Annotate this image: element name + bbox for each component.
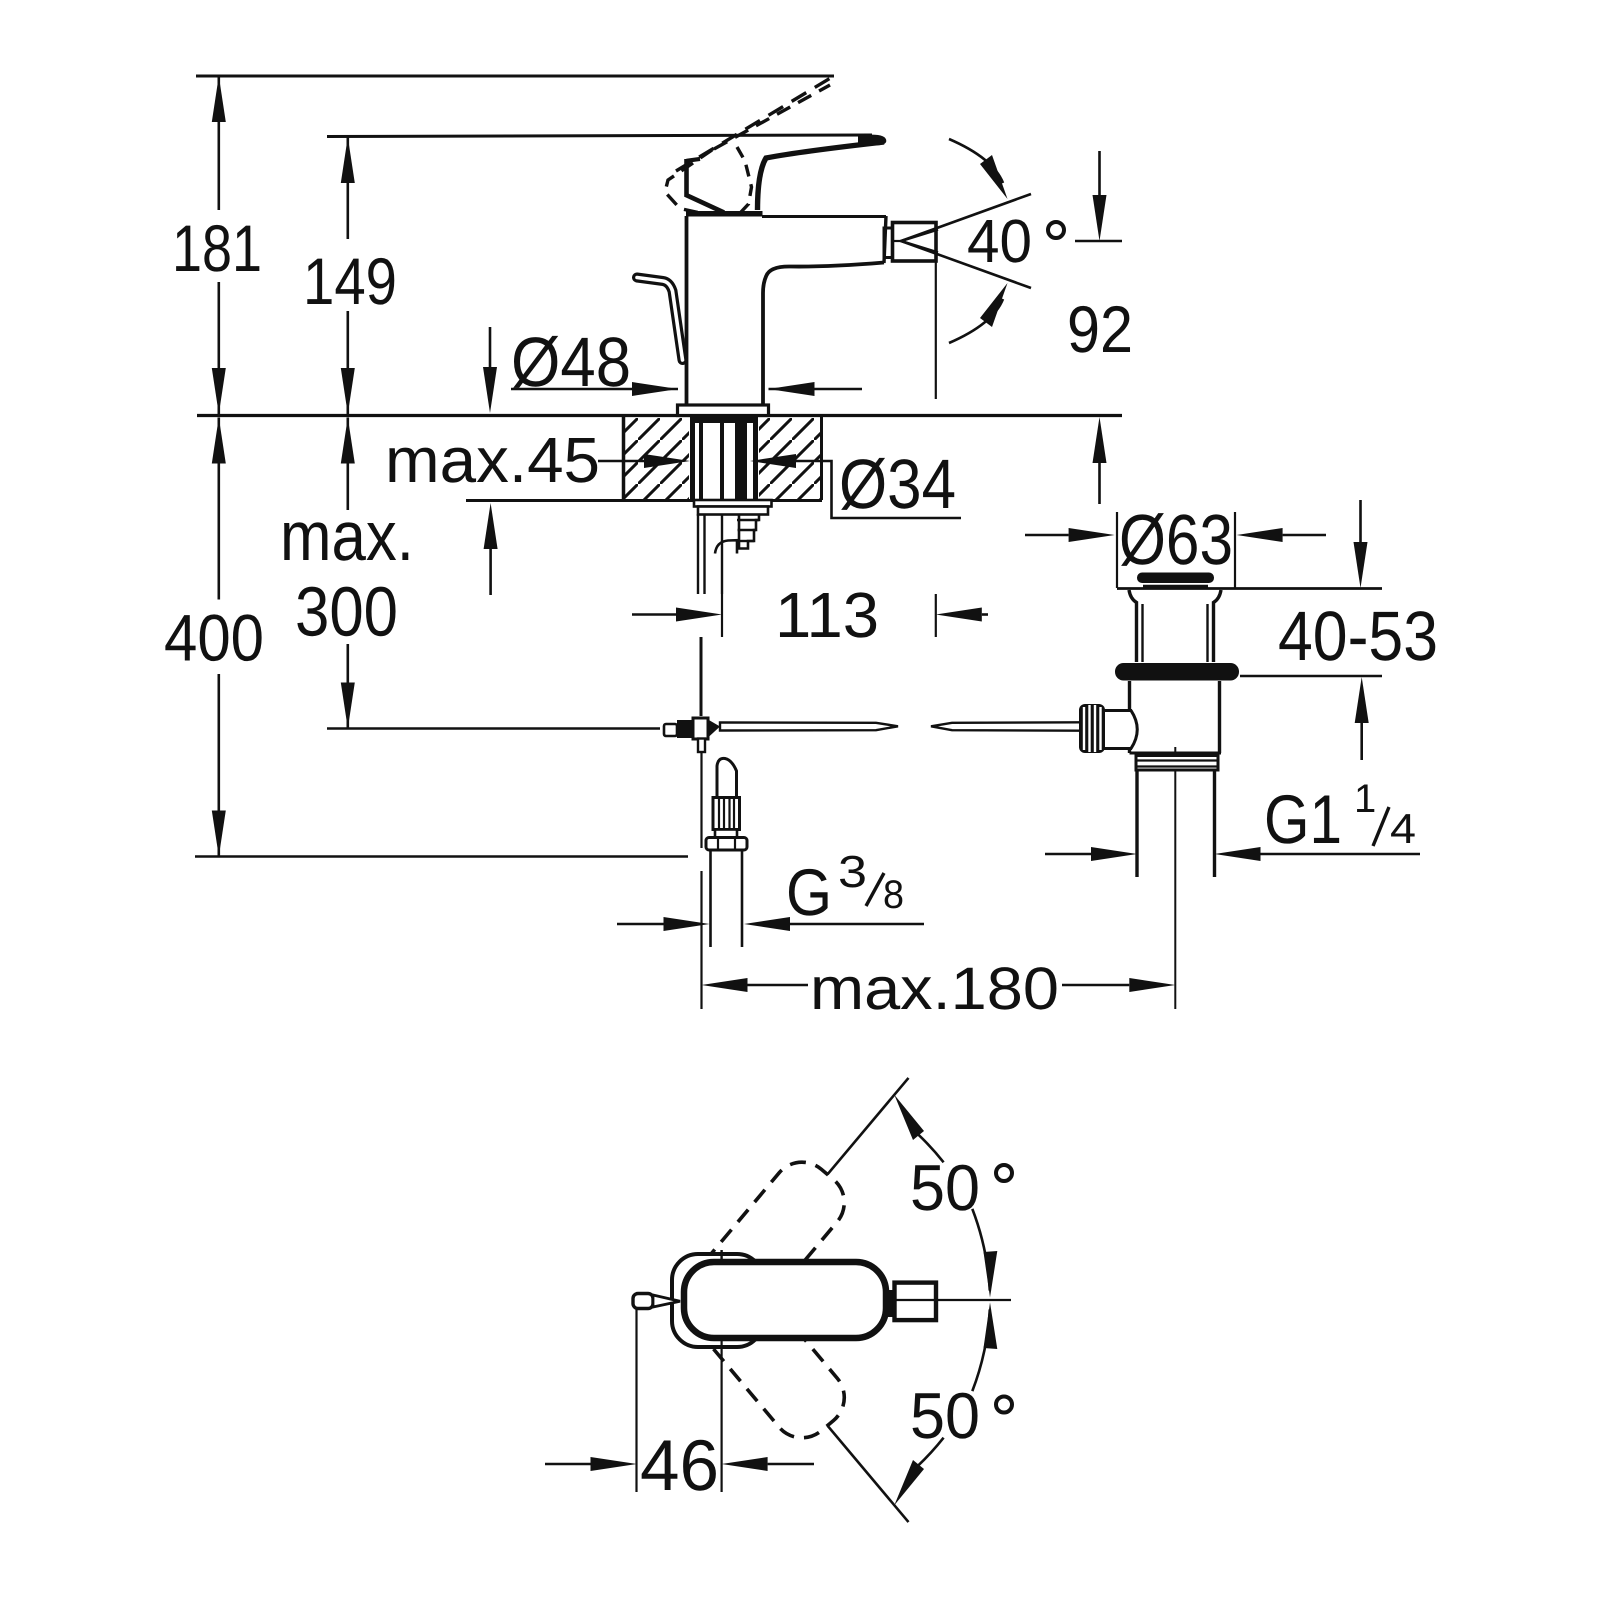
drain locking ring [1136, 756, 1218, 771]
dim 181 line [218, 76, 221, 210]
handle swing diagonal lower [722, 1300, 909, 1522]
countertop hatch right of hole [759, 418, 822, 499]
angle 40 degrees lower line [901, 241, 1031, 288]
spout underside [763, 263, 884, 406]
svg-text:max.45: max.45 [385, 424, 600, 496]
escutcheon (top view) [672, 1254, 763, 1347]
pop-up rod (above counter) [637, 278, 683, 361]
pop-up linkage clamp [664, 724, 677, 736]
dim 149 arrow up [341, 137, 355, 183]
angle 50 upper arc segments [918, 1134, 944, 1163]
thin rod to G3/8 connector [700, 752, 702, 848]
dim 40-53 bottom reference line [1240, 675, 1382, 678]
drain pop-up plug cap [1137, 573, 1214, 584]
svg-text:3: 3 [838, 846, 867, 897]
pop-up horizontal lever right segment [931, 722, 1080, 730]
dim max.300 arrow up [341, 418, 355, 464]
dim G1 1/4 left arrow [1045, 853, 1091, 856]
dim G1 1/4 right arrow [1261, 853, 1421, 856]
hole dim arrow left (max.45 pointer) [598, 460, 644, 463]
faucet dashed handle pivot outline right [737, 147, 752, 212]
angle 50 upper inner arrowhead [984, 1251, 998, 1298]
svg-text:400: 400 [164, 601, 264, 675]
second reference line (handle height 149) [327, 135, 872, 137]
dim 46 right arrow [768, 1463, 814, 1466]
dim 149 arrow down [341, 368, 355, 414]
dim 40-53 top arrow [1359, 500, 1362, 542]
svg-text:181: 181 [172, 211, 262, 285]
dim 46 right extension [720, 1339, 722, 1492]
G3/8 hose end fitting [717, 758, 737, 797]
dim 400 arrow up [212, 418, 226, 464]
lever handle (top view) [684, 1262, 886, 1338]
svg-text:300: 300 [295, 573, 398, 651]
pop-up rod (top view) [633, 1294, 653, 1309]
dim 40-53 bottom arrow [1360, 723, 1363, 760]
angle 50 lower arc segments [972, 1309, 990, 1391]
faucet dashed handle upper edge (raised position) [676, 77, 833, 172]
dim max.300 arrow down [341, 683, 355, 729]
dim 92 top arrow [1098, 151, 1101, 195]
drain flange top line with 40-53 reference [1117, 587, 1382, 590]
countertop slab bottom line [466, 499, 822, 502]
dim 113 left extension line [721, 594, 723, 637]
svg-text:G: G [786, 855, 832, 929]
svg-text:4: 4 [1390, 805, 1416, 852]
base flange [678, 405, 769, 416]
svg-text:1: 1 [1354, 777, 1376, 821]
drain rubber gasket [1115, 663, 1239, 681]
dim 149 line [346, 137, 349, 239]
cartridge cap band [686, 211, 763, 217]
dim Ø34 arrow and leader [750, 454, 796, 468]
spray axis tick [893, 240, 901, 242]
svg-text:max.: max. [280, 497, 414, 575]
dim 92 tick at spout level [1075, 240, 1122, 243]
countertop slab left edge [622, 416, 626, 500]
svg-text:50: 50 [910, 1151, 980, 1224]
drain funnel body [1129, 590, 1137, 662]
svg-text:46: 46 [640, 1426, 719, 1506]
lever handle thick lower edge [758, 142, 885, 210]
drain body below gasket [1128, 681, 1131, 712]
threaded shank top band [690, 417, 758, 423]
dim 46 left extension [635, 1309, 637, 1492]
G3/8 collar band [715, 830, 737, 838]
dim 400 line [218, 418, 221, 600]
svg-text:149: 149 [303, 244, 397, 318]
drain tee ball bulge [1131, 711, 1137, 749]
dim G3/8 right arrow [790, 923, 924, 926]
angle 40 degrees upper line [901, 194, 1031, 241]
svg-text:40: 40 [967, 207, 1032, 275]
dim max.180 left extension [700, 871, 702, 1009]
drain centerline [1174, 747, 1176, 1009]
dim Ø63 right arrow [1283, 534, 1326, 537]
body top edge [762, 215, 886, 218]
dim Ø48 left arrow [511, 388, 678, 391]
angle 40 lower arc with arrowhead [949, 299, 1003, 343]
label degree sign for 40 [1048, 222, 1064, 238]
countertop surface line [197, 414, 1122, 417]
pivot center tick [720, 1250, 722, 1261]
dim G3/8 left arrow [617, 923, 664, 926]
dim 113 left arrow [632, 613, 676, 616]
hose crimp piece below staircase [715, 540, 737, 553]
svg-text:40-53: 40-53 [1278, 597, 1438, 675]
svg-text:max.180: max.180 [810, 955, 1059, 1022]
countertop slab right edge [820, 416, 823, 500]
dashed handle rotated up 50 [668, 1150, 856, 1354]
open arrow at spout outlet [901, 230, 938, 253]
lever pivot head chamfer [685, 195, 724, 213]
dim 181 arrow down [212, 368, 226, 414]
dim max.45 top arrow [489, 327, 492, 367]
angle 50 upper arc outer arrowhead [894, 1095, 924, 1140]
lever pivot top corner [687, 159, 701, 161]
angle 50 lower arc outer arrowhead [894, 1460, 924, 1505]
supply hose double line [697, 514, 699, 594]
countertop hatch left of hole [624, 418, 689, 499]
bottom reference line (400 depth) [195, 855, 688, 858]
pop-up horizontal lever left segment [720, 723, 898, 731]
mounting washer [694, 500, 772, 507]
spout connector block (top view) [888, 1290, 895, 1317]
faucet dashed handle lower edge (raised position) [714, 85, 830, 149]
aerator block [893, 223, 937, 262]
dim 113 right extension line [935, 261, 937, 399]
nut staircase steps [739, 515, 759, 549]
angle 50 lower inner arrowhead [984, 1303, 998, 1350]
spout centerline [722, 1299, 1011, 1301]
dim 46 left arrow [545, 1463, 591, 1466]
aerator flange [884, 228, 893, 258]
svg-text:Ø63: Ø63 [1119, 501, 1233, 580]
dim max.180 left arrow [702, 978, 748, 992]
handle swing diagonal upper [722, 1078, 909, 1300]
body left wall [685, 216, 689, 405]
dim max.180 right arrow [1062, 984, 1129, 987]
dim 113 right arrow [982, 613, 988, 616]
dim 92 bottom arrow [1098, 463, 1101, 504]
top reference line (spout max height) [196, 75, 834, 78]
G3/8 threaded nipple [713, 798, 740, 830]
svg-text:113: 113 [775, 579, 879, 651]
dim Ø48 right arrow [769, 388, 863, 391]
lever handle tip hook [858, 135, 886, 146]
dim max.300 line [346, 418, 349, 511]
svg-text:50: 50 [910, 1379, 980, 1452]
drain body bottom [1130, 752, 1222, 755]
dim Ø63 extension lines [1116, 512, 1118, 588]
svg-text:8: 8 [883, 873, 904, 917]
aerator block (top view) [895, 1283, 937, 1321]
G3/8 hex nut [706, 838, 747, 851]
dim Ø63 left arrow [1025, 534, 1069, 537]
drain tee stem [1104, 709, 1132, 712]
clamp stub below [698, 739, 705, 753]
dim 181 arrow up [212, 76, 226, 122]
drain tail pipe [1135, 770, 1138, 877]
max.300 bottom reference line [327, 727, 660, 730]
threaded shank bars [690, 417, 695, 499]
pop-up rod below counter [721, 515, 723, 594]
spout right wall [884, 216, 886, 263]
dim max.45 bottom arrow [489, 549, 492, 595]
dashed handle rotated down 50 [668, 1246, 856, 1450]
svg-text:92: 92 [1067, 292, 1133, 366]
hose single line to clamp [700, 637, 703, 716]
angle 40 upper arc with arrowhead [949, 139, 1003, 183]
faucet dashed handle pivot outline left [665, 150, 712, 213]
drain knurled knob [1079, 704, 1105, 753]
svg-text:G1: G1 [1264, 781, 1342, 858]
lever pivot head left edge [684, 159, 689, 196]
dim 400 arrow down [212, 811, 226, 857]
mounting nut [698, 507, 768, 515]
G3/8 tail pipe [709, 850, 712, 947]
svg-text:Ø34: Ø34 [839, 445, 956, 523]
